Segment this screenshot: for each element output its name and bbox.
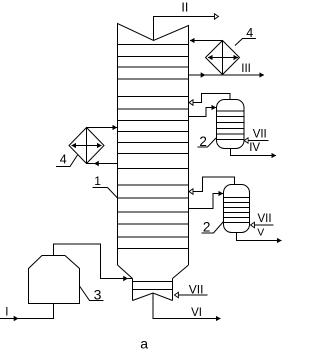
svg-text:V: V (257, 227, 264, 239)
wire pumparound draw from column (87, 161, 118, 166)
svg-text:I: I (5, 307, 8, 319)
column K1 bottom cone (118, 265, 189, 279)
svg-text:VII: VII (253, 129, 267, 141)
wire line VII steam into S1 (244, 140, 268, 142)
svg-text:VI: VI (191, 307, 202, 319)
label 4 leader (top right) (235, 39, 256, 46)
wire line VI bottoms product (153, 293, 221, 319)
svg-text:1: 1 (94, 174, 101, 188)
svg-text:3: 3 (94, 287, 102, 303)
svg-text:4: 4 (246, 26, 253, 40)
stripper S1 trays (217, 111, 245, 140)
column K1 trays (118, 57, 189, 249)
wire line V product from S2 (237, 233, 282, 241)
label 2 leader (lower) (202, 222, 224, 234)
svg-text:IV: IV (249, 142, 260, 154)
stripper S2 shell (224, 185, 250, 233)
wire line IV product from S1 (231, 149, 277, 156)
svg-text:VII: VII (189, 283, 204, 297)
svg-text:а: а (140, 335, 148, 351)
stripper S1 shell (217, 100, 245, 149)
wire reflux return into column top (190, 40, 223, 42)
wire vapour return from stripper S2 (189, 177, 235, 192)
svg-text:2: 2 (199, 134, 207, 149)
wire line VII steam into S2 (251, 224, 274, 226)
svg-text:2: 2 (203, 220, 211, 235)
column K1 shell (118, 45, 189, 266)
wire vapour return from stripper S1 (189, 94, 230, 103)
wire draw-off to stripper S2 (189, 194, 224, 209)
furnace F1 (29, 256, 80, 304)
svg-text:III: III (241, 63, 251, 75)
pumparound exchanger E2 (left diamond) (69, 128, 104, 164)
wire pumparound return to column (87, 127, 118, 129)
label 3 leader (80, 286, 104, 301)
column K1 crown (118, 24, 189, 45)
svg-text:VII: VII (258, 213, 272, 225)
wire line VII steam into column bottom (174, 294, 207, 296)
stripper S2 trays (224, 198, 250, 223)
condenser E1 (top right diamond) (206, 41, 240, 75)
svg-text:II: II (181, 0, 188, 14)
wire line II overhead vapour (154, 17, 219, 41)
wire draw-off to stripper S1 (189, 108, 217, 117)
label 2 leader (upper) (198, 138, 217, 147)
wire line III side draw (189, 72, 265, 77)
column K1 bottom baffle (133, 293, 173, 301)
wire transfer line furnace to column (54, 244, 133, 281)
wire line I feed (0, 304, 54, 322)
svg-text:4: 4 (60, 153, 67, 167)
label 4 leader (left) (56, 155, 78, 167)
label 1 leader (93, 188, 119, 199)
column K1 bottom neck (133, 279, 173, 301)
